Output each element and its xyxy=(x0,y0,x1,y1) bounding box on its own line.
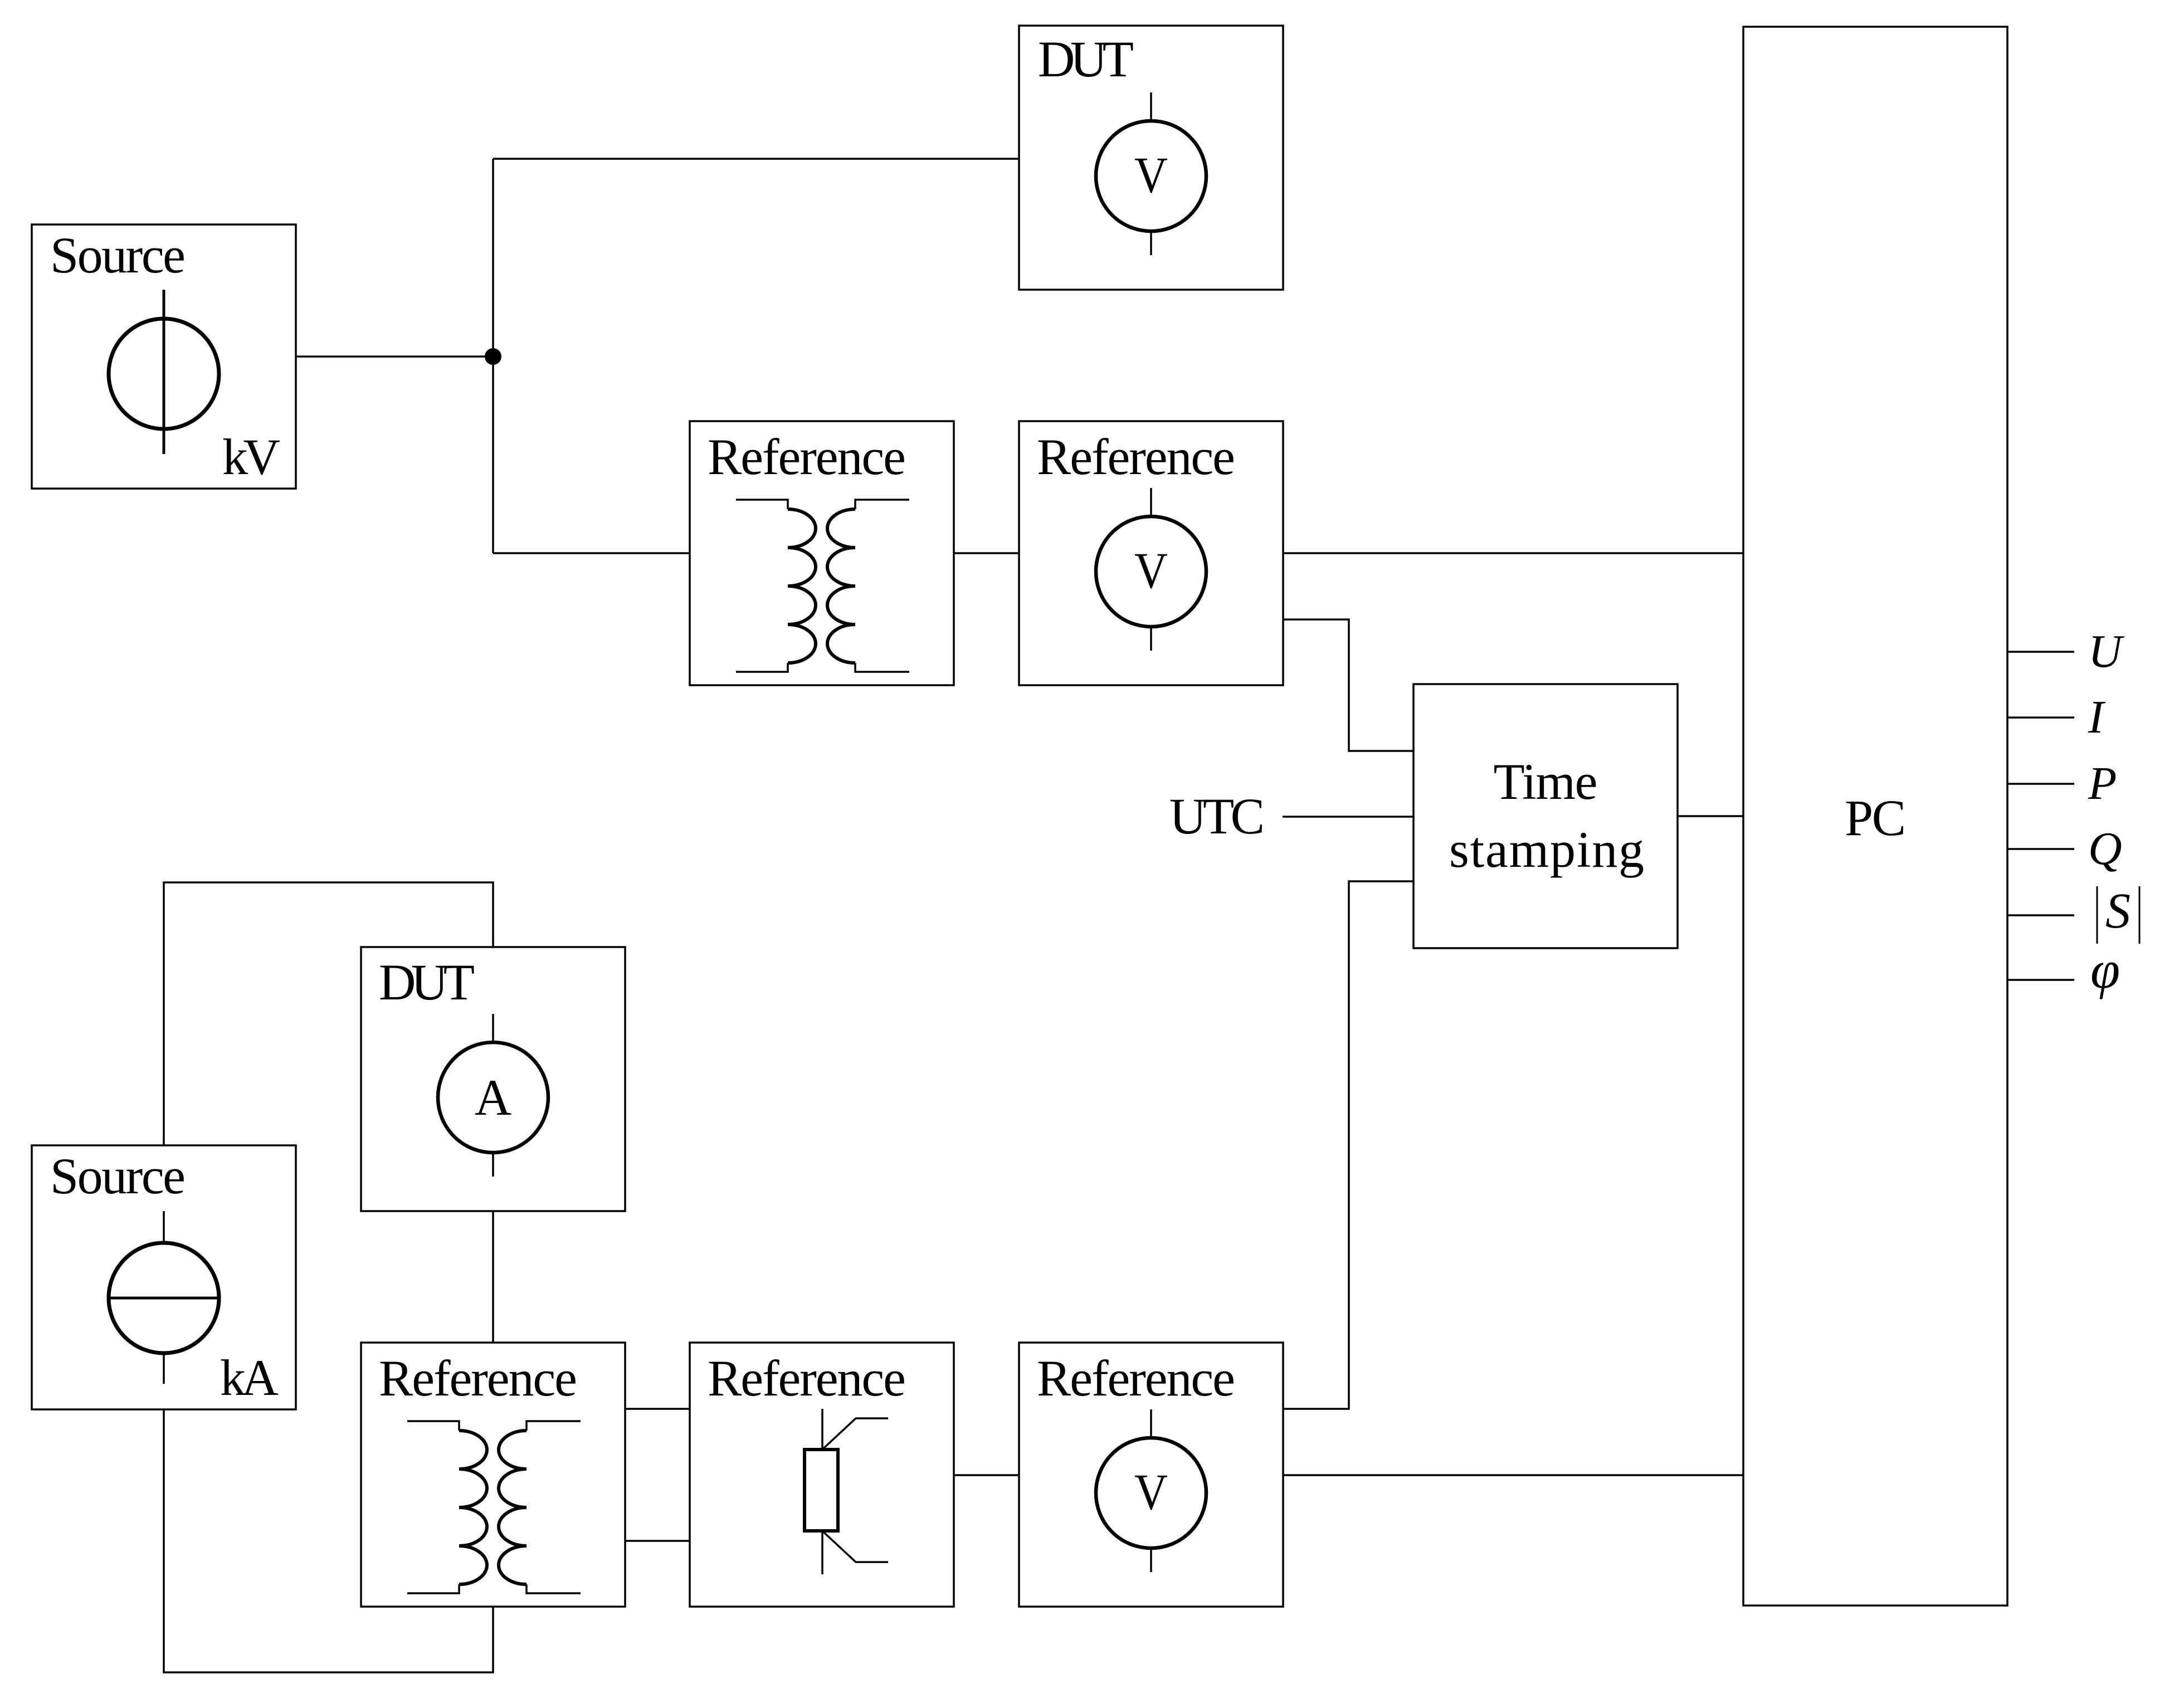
block Reference transformer (bottom) xyxy=(361,1343,625,1607)
svg-text:φ: φ xyxy=(2090,940,2120,999)
current source symbol (kA source) xyxy=(109,1211,219,1384)
svg-text:A: A xyxy=(475,1069,511,1126)
wire shunt to bottom reference voltmeter xyxy=(954,1474,1019,1476)
PC output stub Q xyxy=(2007,848,2074,850)
wire bottom reference voltmeter to PC xyxy=(1283,1474,1743,1476)
svg-text:V: V xyxy=(1134,542,1168,599)
svg-text:Time: Time xyxy=(1494,753,1598,810)
block Reference voltmeter (top) xyxy=(1019,421,1283,685)
transformer symbol (top reference) xyxy=(736,500,909,672)
svg-text:S: S xyxy=(2105,884,2131,939)
PC output stub S xyxy=(2007,914,2074,916)
wire transformer to shunt (upper) xyxy=(625,1408,690,1410)
wire bottom reference voltmeter to time stamping xyxy=(1283,881,1413,1409)
svg-text:Reference: Reference xyxy=(1037,1350,1235,1407)
voltmeter in DUT box xyxy=(1096,92,1206,255)
wire node A to reference transformer xyxy=(493,552,690,554)
voltage source symbol (kV source) xyxy=(109,290,219,454)
shunt resistor symbol (4-terminal) xyxy=(805,1409,888,1574)
wire reference voltmeter to time stamping xyxy=(1283,619,1413,751)
PC output stub P xyxy=(2007,783,2074,785)
svg-text:stamping: stamping xyxy=(1449,821,1644,878)
label |S| xyxy=(2097,884,2139,944)
svg-text:I: I xyxy=(2088,691,2106,743)
svg-text:Q: Q xyxy=(2088,823,2122,875)
ammeter in DUT box xyxy=(438,1014,548,1177)
block Reference shunt resistor xyxy=(690,1343,954,1607)
label Q xyxy=(2088,823,2122,875)
wire UTC input to time stamping xyxy=(1283,816,1413,818)
node A junction dot xyxy=(485,348,501,365)
svg-text:U: U xyxy=(2088,626,2125,677)
voltmeter in top reference box xyxy=(1096,488,1206,651)
block DUT ammeter xyxy=(361,947,625,1211)
wire bottom transformer return to kA source xyxy=(164,1409,493,1672)
wire kA source to DUT ammeter xyxy=(164,882,493,1145)
svg-text:V: V xyxy=(1134,147,1168,203)
wire node A vertical bus xyxy=(492,159,494,553)
block Source kA xyxy=(32,1145,296,1409)
wire transformer to reference voltmeter xyxy=(954,552,1019,554)
wire node A to DUT voltmeter xyxy=(493,158,1019,160)
block PC xyxy=(1743,27,2007,1606)
svg-text:Source: Source xyxy=(50,227,186,284)
label UTC xyxy=(1169,788,1265,845)
wire time stamping to PC xyxy=(1678,815,1743,817)
svg-text:Reference: Reference xyxy=(708,428,906,485)
svg-text:P: P xyxy=(2088,758,2117,809)
PC output stub U xyxy=(2007,651,2074,653)
block Source kV xyxy=(32,225,296,489)
svg-text:UTC: UTC xyxy=(1169,788,1265,845)
block Time stamping xyxy=(1413,684,1678,948)
svg-text:Reference: Reference xyxy=(379,1350,577,1407)
label phi xyxy=(2090,940,2120,999)
svg-text:Reference: Reference xyxy=(708,1350,906,1407)
block Reference transformer (top) xyxy=(690,421,954,685)
transformer symbol (bottom reference) xyxy=(407,1421,581,1593)
svg-text:DUT: DUT xyxy=(379,954,475,1011)
svg-text:Reference: Reference xyxy=(1037,428,1235,485)
svg-text:V: V xyxy=(1134,1463,1168,1520)
wire transformer to shunt (lower) xyxy=(625,1540,690,1542)
block DUT voltmeter xyxy=(1019,26,1283,290)
voltmeter in bottom reference box xyxy=(1096,1409,1206,1572)
svg-text:PC: PC xyxy=(1845,789,1906,846)
svg-text:Source: Source xyxy=(50,1148,186,1204)
block Reference voltmeter (bottom) xyxy=(1019,1343,1283,1607)
PC output stub phi xyxy=(2007,979,2074,981)
wire kV source output to node A xyxy=(296,355,493,358)
label U xyxy=(2088,626,2125,677)
label P xyxy=(2088,758,2117,809)
svg-text:kA: kA xyxy=(220,1349,279,1406)
wire reference voltmeter to PC xyxy=(1283,552,1743,554)
label I xyxy=(2088,691,2106,743)
wire DUT ammeter to bottom transformer xyxy=(492,1211,494,1343)
svg-text:kV: kV xyxy=(222,428,280,485)
svg-text:DUT: DUT xyxy=(1038,31,1134,87)
PC output stub I xyxy=(2007,716,2074,719)
